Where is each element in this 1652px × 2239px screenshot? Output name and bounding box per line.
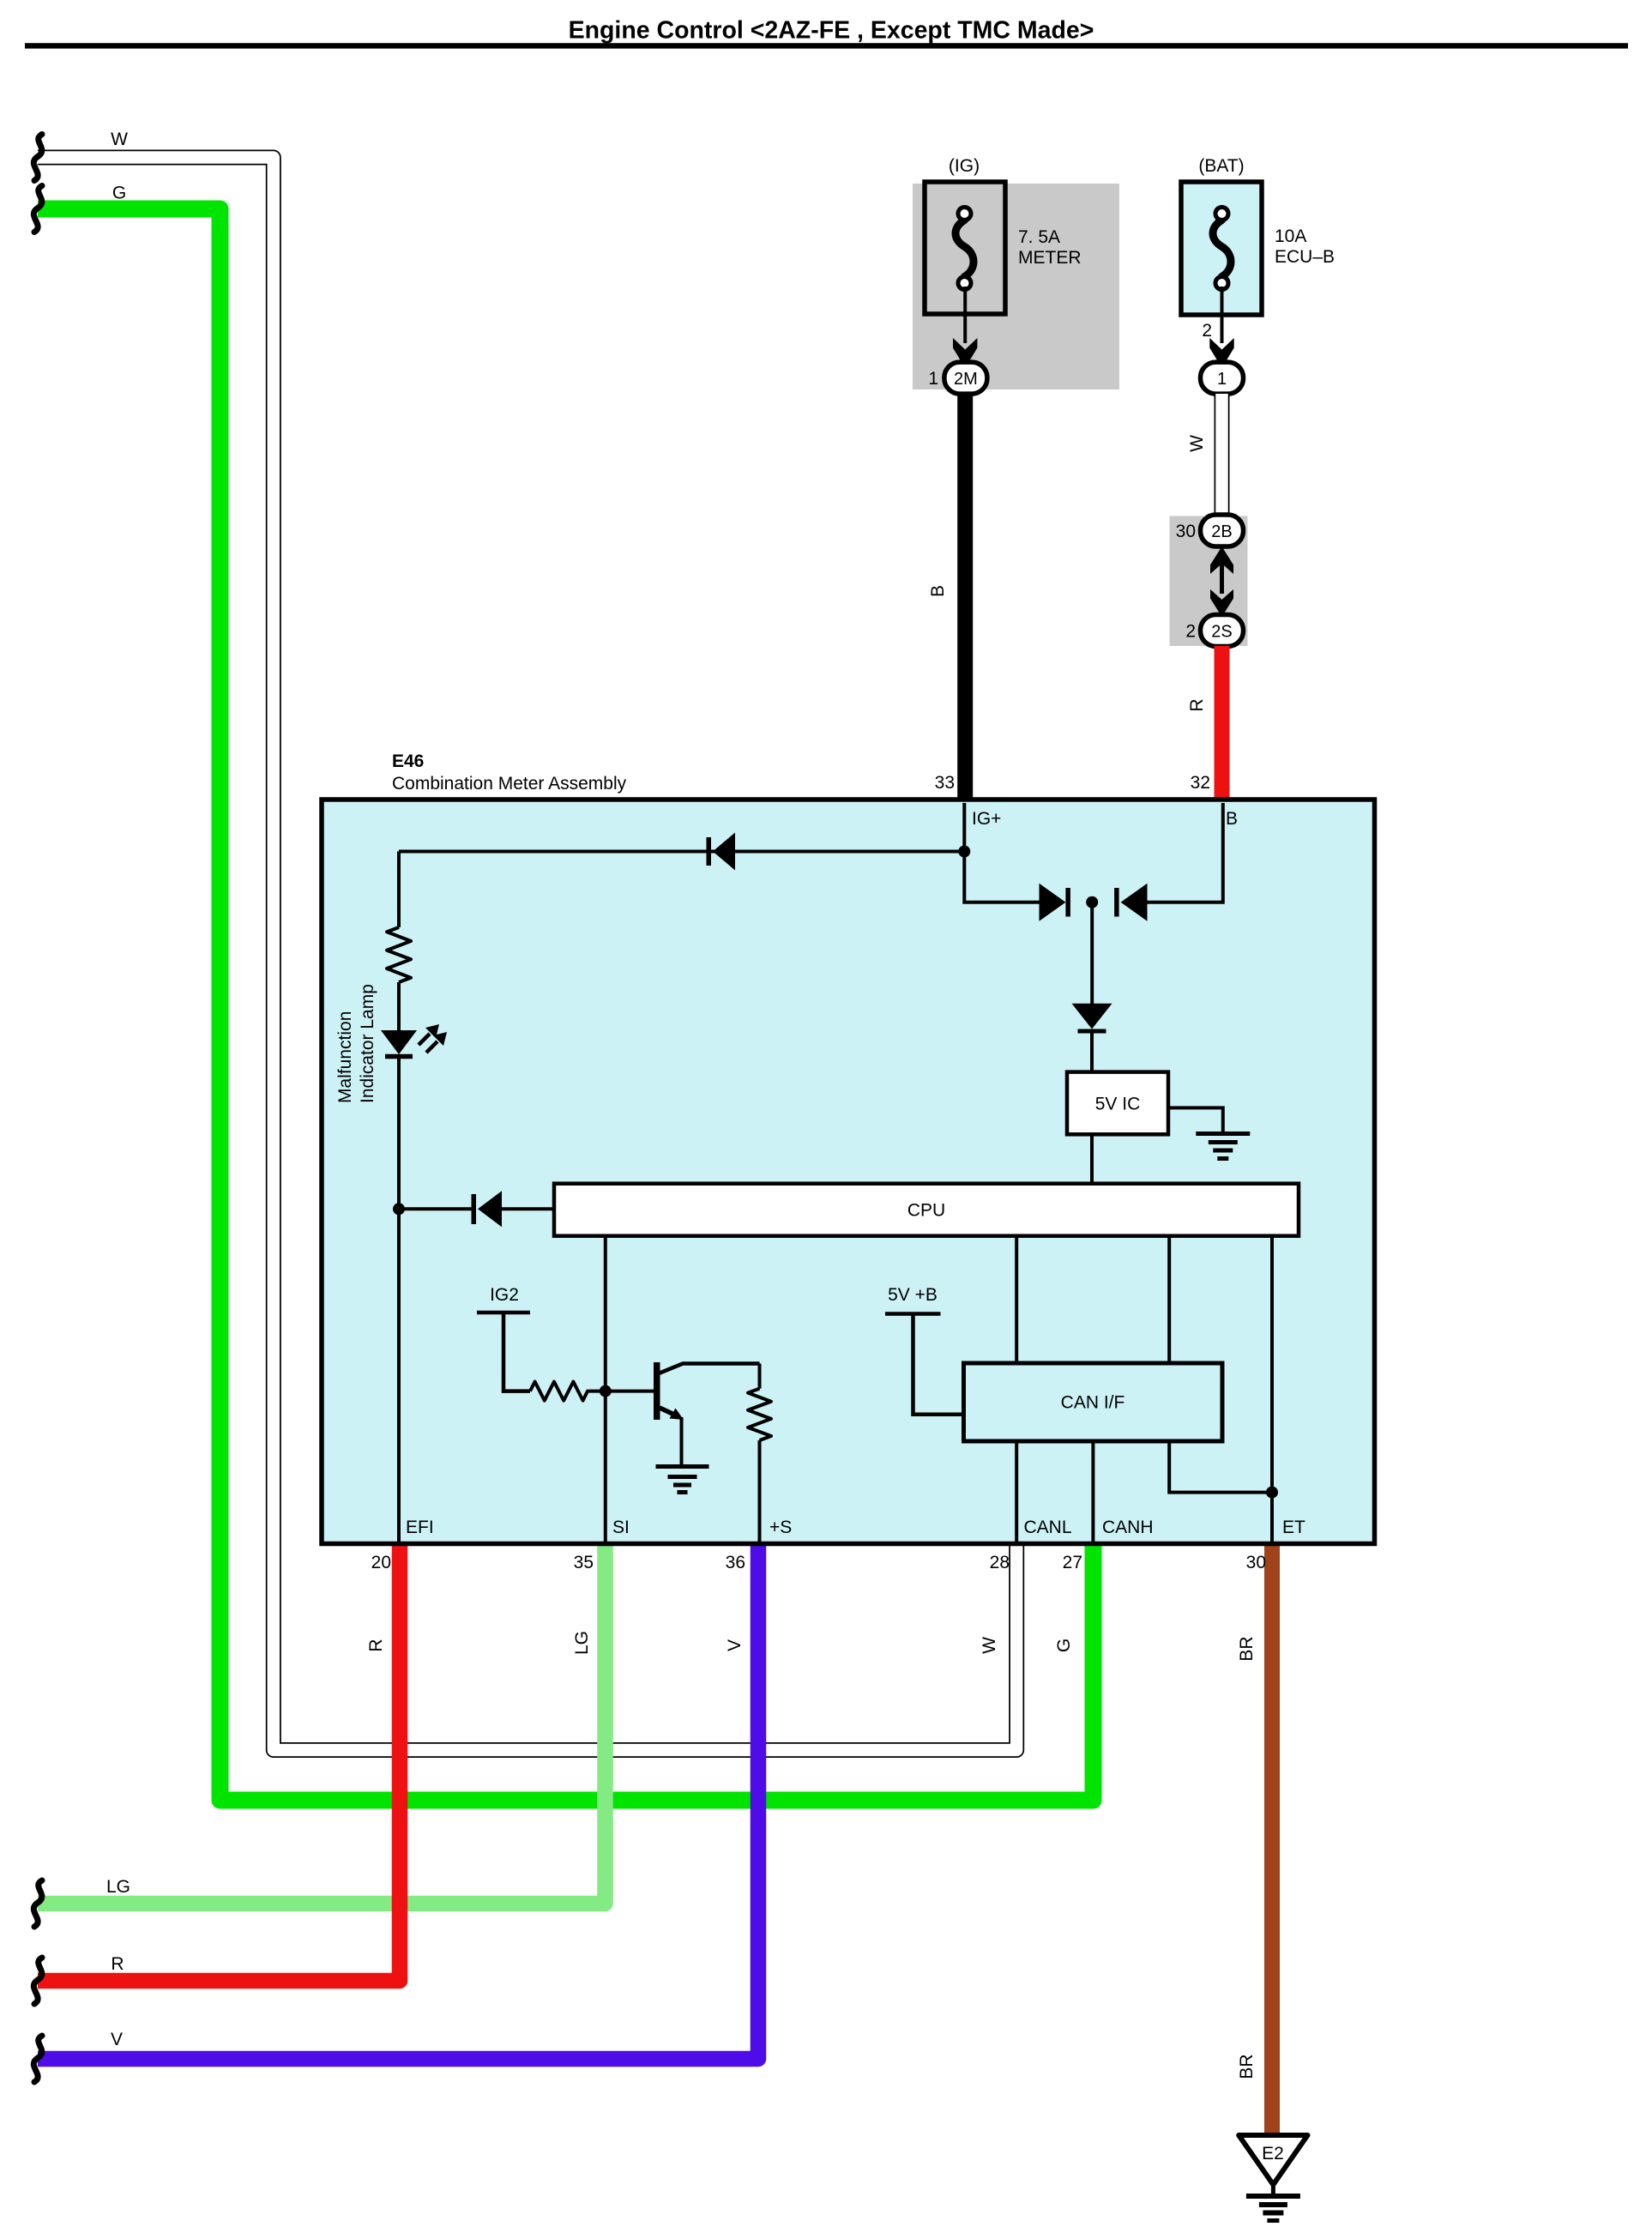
- svg-text:IG+: IG+: [972, 809, 1001, 829]
- ground G1 (5V IC): [1196, 1134, 1250, 1159]
- connector 1: [1201, 362, 1244, 394]
- connector 2M (pin 1): [928, 362, 987, 394]
- svg-text:R: R: [366, 1639, 386, 1651]
- diode D2a (pointing right into center node): [1040, 884, 1070, 921]
- svg-text:BR: BR: [1237, 2054, 1257, 2079]
- svg-text:IG2: IG2: [490, 1285, 519, 1305]
- svg-text:R: R: [111, 1954, 124, 1974]
- svg-text:Malfunction: Malfunction: [335, 1011, 355, 1103]
- svg-text:5V +B: 5V +B: [888, 1285, 938, 1305]
- svg-text:(BAT): (BAT): [1198, 156, 1244, 176]
- wire CAN I/F to ET line: [1169, 1441, 1272, 1493]
- double arrow between 2B and 2S: [1210, 546, 1233, 617]
- wire SI vertical (CPU to pin 35): [604, 1235, 607, 1543]
- diode D5 (pointing left, CPU to EFI line): [472, 1191, 503, 1227]
- wire collector load to pin 36: [758, 1364, 762, 1544]
- wire R (pin 20 EFI to left edge): [38, 1545, 400, 1981]
- led D4 malfunction indicator lamp: [381, 1024, 447, 1057]
- svg-text:G: G: [1054, 1639, 1074, 1652]
- wire 5V IC to ground G1: [1168, 1107, 1223, 1132]
- svg-text:W: W: [980, 1637, 999, 1654]
- svg-text:CANL: CANL: [1024, 1518, 1072, 1537]
- wire W (pin 28 CANL to top-left edge, white outlined): [38, 158, 1016, 1751]
- label Malfunction Indicator Lamp: [335, 984, 377, 1103]
- svg-text:2: 2: [1185, 622, 1196, 642]
- diode D2b (pointing left into center node): [1114, 884, 1147, 921]
- svg-text:SI: SI: [612, 1518, 630, 1537]
- wire CPU to CAN I/F left vertical: [1015, 1235, 1018, 1363]
- wire MIL branch vertical (EFI line): [397, 852, 401, 1544]
- connector 2S (pin 2): [1185, 615, 1243, 647]
- resistor R3 (collector to +S): [748, 1389, 771, 1440]
- wire D3 to 5V IC: [1090, 1033, 1094, 1072]
- svg-text:B: B: [1226, 809, 1238, 829]
- svg-text:28: 28: [990, 1553, 1010, 1572]
- fuse 10A ECU-B (BAT): [1181, 156, 1335, 315]
- svg-text:B: B: [928, 585, 948, 597]
- diode D1 (on IG+ horizontal wire, pointing left): [707, 833, 736, 871]
- svg-text:W: W: [111, 130, 128, 149]
- node EFI junction: [393, 1203, 405, 1215]
- power tap 5V +B to CAN I/F: [885, 1314, 964, 1415]
- svg-text:20: 20: [371, 1553, 391, 1572]
- wire ET vertical (CPU to pin 30): [1270, 1235, 1274, 1543]
- svg-text:7. 5A: 7. 5A: [1018, 227, 1060, 247]
- wire B (fuse METER to pin 33, black): [957, 377, 973, 803]
- svg-text:2B: 2B: [1211, 522, 1232, 541]
- connector arrow into 1: [1209, 338, 1233, 368]
- wire break squiggle V: [33, 2036, 42, 2082]
- wire LG (pin 35 SI to left edge): [38, 1545, 606, 1904]
- wire IG+ down from pin 33: [962, 803, 966, 852]
- node center of diode pair: [1086, 896, 1098, 908]
- svg-text:2S: 2S: [1211, 623, 1232, 642]
- node IG+ junction: [958, 846, 970, 858]
- svg-text:Indicator Lamp: Indicator Lamp: [358, 984, 377, 1103]
- svg-text:V: V: [111, 2030, 123, 2049]
- wire V (pin 36 +S to left edge): [38, 1545, 758, 2059]
- svg-text:LG: LG: [106, 1877, 130, 1897]
- power tap IG2: [477, 1313, 530, 1391]
- svg-text:CAN I/F: CAN I/F: [1061, 1393, 1125, 1413]
- wire break squiggle G: [33, 186, 42, 232]
- svg-text:36: 36: [726, 1553, 745, 1572]
- wire W (connector 1 to 2B, white outlined): [1215, 394, 1230, 516]
- connector junction 2B/2S gray block: [1170, 516, 1248, 647]
- svg-text:10A: 10A: [1275, 226, 1306, 246]
- wire break squiggle LG: [33, 1880, 42, 1927]
- svg-text:+S: +S: [769, 1518, 792, 1537]
- wire G (pin 27 CANH to top-left edge): [38, 209, 1094, 1801]
- wire center node down to diode D3: [1090, 902, 1094, 1004]
- svg-text:V: V: [725, 1639, 745, 1651]
- svg-text:30: 30: [1176, 522, 1196, 541]
- svg-text:1: 1: [1217, 370, 1227, 389]
- connector 2B (pin 30): [1176, 515, 1244, 546]
- title: [25, 17, 1628, 49]
- svg-text:32: 32: [1191, 773, 1210, 793]
- wire fuse METER to connector 2M: [963, 287, 967, 343]
- wire base (junction to transistor): [606, 1390, 654, 1393]
- svg-text:E2: E2: [1262, 2144, 1284, 2164]
- svg-text:CPU: CPU: [907, 1201, 945, 1221]
- wire CANH (CAN I/F to pin 27): [1091, 1441, 1094, 1543]
- svg-text:33: 33: [935, 773, 955, 793]
- svg-text:5V IC: 5V IC: [1095, 1095, 1141, 1114]
- svg-text:ECU–B: ECU–B: [1275, 247, 1335, 267]
- cpu CPU box: [554, 1184, 1299, 1236]
- wire fuse ECU-B to connector 1: [1221, 287, 1224, 343]
- wire CPU to CAN I/F right vertical: [1167, 1235, 1171, 1363]
- wire EFI junction to diode D5: [399, 1207, 554, 1210]
- node SI junction: [600, 1385, 612, 1397]
- svg-text:W: W: [1187, 435, 1207, 452]
- wire IG+ horizontal to MIL branch: [399, 850, 964, 854]
- svg-text:Combination Meter Assembly: Combination Meter Assembly: [392, 774, 627, 794]
- svg-text:1: 1: [928, 369, 938, 389]
- wire CANL (CAN I/F to pin 28): [1015, 1441, 1018, 1543]
- svg-text:BR: BR: [1237, 1636, 1257, 1661]
- svg-text:EFI: EFI: [406, 1518, 434, 1537]
- svg-text:(IG): (IG): [949, 156, 980, 176]
- svg-text:G: G: [112, 184, 126, 203]
- regulator 5V IC: [1067, 1072, 1168, 1135]
- node ET junction: [1266, 1487, 1278, 1499]
- combination meter assembly box E46: [322, 800, 1375, 1544]
- wire B down from pin 32: [1147, 803, 1223, 902]
- wire BR (pin 30 ET to ground E2): [1264, 1545, 1280, 2133]
- svg-text:30: 30: [1246, 1553, 1266, 1572]
- resistor R1 (MIL branch): [387, 927, 411, 982]
- wire R (2S to pin 32, red): [1215, 646, 1230, 803]
- svg-text:Engine Control <2AZ-FE , Excep: Engine Control <2AZ-FE , Except TMC Made…: [569, 17, 1094, 45]
- wire break squiggle W: [33, 135, 42, 181]
- svg-text:2: 2: [1202, 321, 1212, 341]
- svg-text:ET: ET: [1282, 1518, 1305, 1537]
- resistor R2 (IG2 to base): [530, 1382, 606, 1401]
- fuse 7.5A METER (IG): [913, 156, 1119, 389]
- ground G2 (emitter): [656, 1467, 709, 1493]
- svg-text:2M: 2M: [954, 370, 978, 389]
- diode D3 (pointing down): [1072, 1004, 1112, 1034]
- can interface CAN I/F box: [964, 1363, 1223, 1441]
- connector arrow into 2M: [953, 338, 977, 368]
- svg-text:27: 27: [1063, 1553, 1082, 1572]
- ground E2: [1239, 2135, 1307, 2221]
- svg-text:LG: LG: [572, 1631, 592, 1655]
- wire break squiggle R: [33, 1958, 42, 2004]
- transistor Q1 (NPN): [654, 1362, 760, 1465]
- wire 5V IC to CPU: [1090, 1134, 1094, 1184]
- svg-text:35: 35: [574, 1553, 594, 1572]
- wire IG+ junction down to diode pair: [964, 852, 1039, 902]
- svg-text:R: R: [1187, 698, 1207, 711]
- svg-text:E46: E46: [392, 751, 424, 771]
- svg-text:CANH: CANH: [1102, 1518, 1154, 1537]
- svg-text:METER: METER: [1018, 248, 1082, 268]
